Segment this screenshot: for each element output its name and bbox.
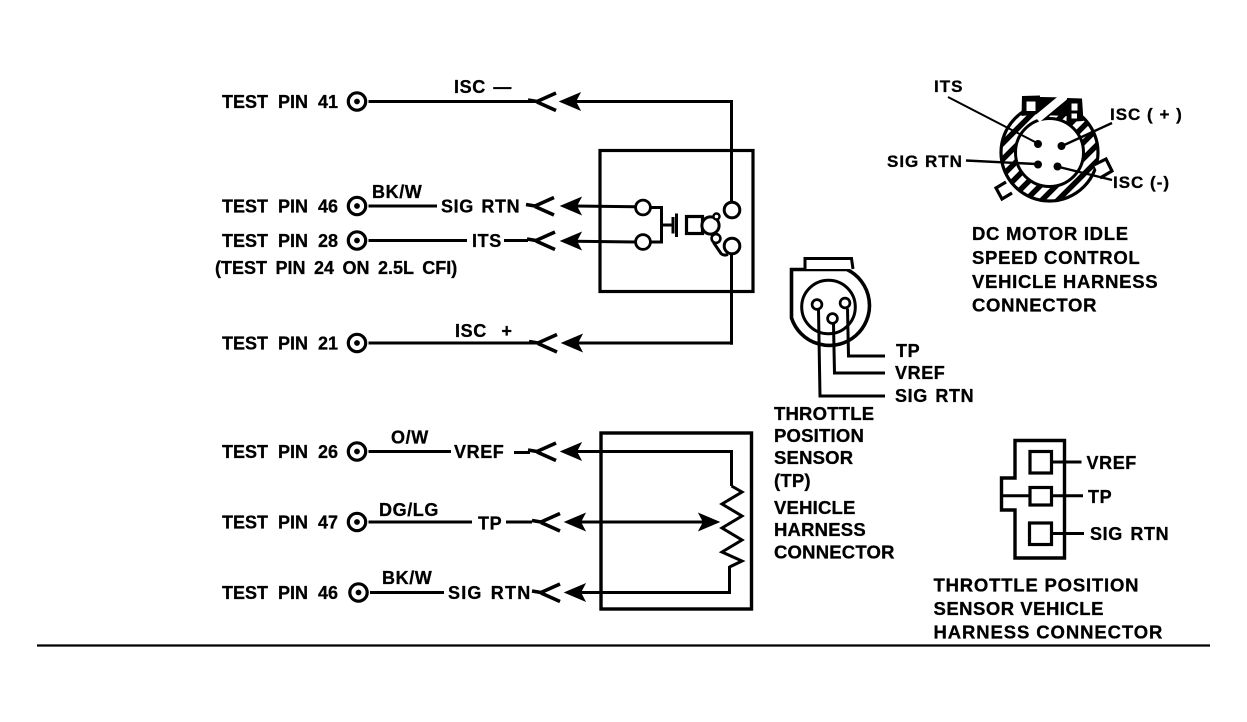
- svg-text:TEST PIN 46: TEST PIN 46: [222, 197, 338, 217]
- svg-text:BK/W: BK/W: [382, 568, 432, 588]
- svg-text:TEST PIN 47: TEST PIN 47: [222, 513, 338, 533]
- svg-text:ISC (-): ISC (-): [1113, 173, 1170, 192]
- connector top castellation: [1037, 95, 1068, 119]
- wire BK/W lower segment: [370, 591, 444, 594]
- chevron arrowhead ISC-: [528, 93, 556, 111]
- svg-text:(TP): (TP): [774, 470, 811, 491]
- svg-text:TEST PIN 41: TEST PIN 41: [222, 92, 338, 112]
- svg-text:ITS: ITS: [472, 231, 502, 251]
- svg-text:SIG RTN: SIG RTN: [448, 583, 531, 603]
- chevron arrowhead TP: [532, 514, 560, 532]
- motor shaft bump: [714, 214, 720, 220]
- DC motor body square: [687, 217, 703, 234]
- wire TP through-line: [1003, 494, 1083, 497]
- test pin 47 jack: [348, 513, 365, 530]
- svg-text:O/W: O/W: [391, 428, 429, 448]
- TP connector pin right: [840, 298, 850, 308]
- test pin 46 jack: [348, 197, 365, 214]
- leader line ISC-: [1059, 167, 1112, 180]
- svg-text:DC MOTOR IDLE: DC MOTOR IDLE: [972, 223, 1129, 244]
- pin VREF square: [1030, 452, 1052, 474]
- chevron arrowhead VREF: [528, 443, 556, 461]
- TP harness round connector outline: [792, 270, 870, 346]
- connector side lug right: [1094, 159, 1112, 178]
- wire ISC+ vertical rise to motor terminal: [730, 254, 733, 345]
- connector side lug left: [996, 182, 1012, 199]
- svg-text:TEST PIN 26: TEST PIN 26: [222, 442, 338, 462]
- svg-text:ISC ( + ): ISC ( + ): [1110, 105, 1183, 124]
- wire VREF right segment: [514, 451, 530, 454]
- wire ISC+ from pin 21: [369, 342, 539, 345]
- caption THROTTLE POSITION SENSOR (TP) VEHICLE HARNESS CONNECTOR: [774, 403, 895, 563]
- svg-text:TEST PIN 46: TEST PIN 46: [222, 583, 338, 603]
- TP sensor box: [601, 433, 752, 609]
- wire DG/LG segment: [369, 521, 473, 524]
- arrow VREF from TP sensor: [561, 443, 732, 460]
- svg-text:SIG RTN: SIG RTN: [441, 197, 520, 217]
- svg-text:THROTTLE POSITION: THROTTLE POSITION: [934, 575, 1140, 596]
- svg-text:VEHICLE: VEHICLE: [774, 497, 856, 518]
- svg-text:SIG RTN: SIG RTN: [887, 152, 963, 171]
- caption DC MOTOR IDLE SPEED CONTROL VEHICLE HARNESS CONNECTOR: [972, 223, 1158, 316]
- svg-text:CONNECTOR: CONNECTOR: [972, 295, 1097, 316]
- DC motor rotor circle: [702, 217, 719, 234]
- svg-text:VREF: VREF: [895, 363, 945, 383]
- chevron arrowhead ITS: [527, 232, 555, 250]
- wire BK/W segment: [369, 205, 438, 208]
- svg-text:TEST PIN 28: TEST PIN 28: [222, 231, 338, 251]
- svg-text:VREF: VREF: [1087, 453, 1137, 473]
- svg-text:SENSOR: SENSOR: [774, 447, 853, 468]
- test pin 26 jack: [348, 443, 365, 460]
- arrow ISC+ from motor: [562, 335, 732, 352]
- wire VREF vertical drop to resistor: [730, 450, 733, 486]
- chevron arrowhead SIG RTN lower: [532, 584, 560, 602]
- svg-text:THROTTLE: THROTTLE: [774, 403, 874, 424]
- svg-text:ISC —: ISC —: [454, 77, 512, 97]
- wire O/W segment: [369, 450, 452, 453]
- ITS switch plunger: [662, 214, 677, 238]
- svg-text:POSITION: POSITION: [774, 425, 864, 446]
- pin TP square: [1030, 488, 1052, 506]
- arrow ISC- from harness: [560, 93, 732, 110]
- svg-text:SENSOR VEHICLE: SENSOR VEHICLE: [934, 598, 1104, 619]
- wire SIG RTN pin lead right: [1052, 532, 1085, 535]
- arrow SIG RTN from ISC motor: [561, 198, 636, 215]
- wire VREF pin lead: [834, 324, 886, 373]
- potentiometer resistor element: [722, 486, 742, 567]
- test pin 41 jack: [348, 93, 365, 110]
- bottom rule: [37, 644, 1210, 646]
- arrow ITS from ISC motor: [561, 233, 636, 250]
- wire ISC- vertical drop to motor terminal: [730, 100, 733, 203]
- arrow TP wiper double-headed: [565, 514, 719, 531]
- svg-text:TP: TP: [1088, 487, 1112, 507]
- svg-text:ITS: ITS: [934, 77, 963, 96]
- wire ITS left segment: [369, 239, 468, 242]
- TP sensor harness connector body: [1002, 441, 1065, 559]
- svg-text:DG/LG: DG/LG: [379, 500, 439, 520]
- connector top tab left: [1022, 96, 1041, 117]
- wire ISC- from pin 41: [369, 100, 538, 103]
- connector top tab right: [1067, 98, 1084, 122]
- svg-text:TEST PIN 21: TEST PIN 21: [222, 334, 338, 354]
- svg-text:HARNESS: HARNESS: [774, 519, 866, 540]
- svg-text:BK/W: BK/W: [372, 182, 422, 202]
- wire ITS right segment: [504, 239, 528, 242]
- leader line ISC+: [1062, 123, 1112, 146]
- motor worm gear circle: [712, 234, 721, 243]
- svg-text:VEHICLE HARNESS: VEHICLE HARNESS: [972, 271, 1158, 292]
- motor terminal upper: [724, 202, 740, 218]
- svg-text:SPEED CONTROL: SPEED CONTROL: [972, 247, 1140, 268]
- DC motor ISC harness connector: [854, 78, 1244, 228]
- caption THROTTLE POSITION SENSOR VEHICLE HARNESS CONNECTOR: [934, 575, 1164, 643]
- TP connector top tab: [805, 259, 853, 270]
- chevron arrowhead ISC+: [529, 335, 557, 353]
- wire TP pin lead: [848, 309, 886, 357]
- svg-text:HARNESS CONNECTOR: HARNESS CONNECTOR: [934, 622, 1164, 643]
- ISC motor assembly box: [600, 151, 753, 292]
- TP connector pin middle: [828, 314, 838, 324]
- wire VREF pin lead right: [1052, 461, 1082, 464]
- wire SIG RTN vertical rise to resistor: [728, 566, 731, 594]
- test pin 46 lower jack: [350, 584, 367, 601]
- wire SIG RTN pin lead: [819, 310, 886, 396]
- svg-text:TP: TP: [896, 341, 920, 361]
- ITS switch terminal lower: [636, 235, 651, 250]
- test pin 28 jack: [348, 232, 365, 249]
- motor linkage wire: [714, 243, 729, 256]
- ITS switch terminal upper: [636, 200, 651, 215]
- leader line SIG RTN: [966, 161, 1036, 165]
- svg-text:ISC +: ISC +: [455, 321, 513, 341]
- pin ISC-: [1054, 163, 1062, 171]
- leader line ITS: [948, 97, 1037, 143]
- svg-text:VREF: VREF: [454, 442, 504, 462]
- wire TP right segment: [506, 521, 532, 524]
- TP connector pin left: [812, 300, 822, 310]
- pin ITS: [1034, 140, 1042, 148]
- chevron arrowhead SIG RTN: [526, 198, 554, 216]
- svg-text:(TEST PIN 24 ON 2.5L CFI): (TEST PIN 24 ON 2.5L CFI): [215, 258, 457, 278]
- pin SIG RTN: [1034, 161, 1042, 169]
- svg-text:CONNECTOR: CONNECTOR: [774, 542, 895, 563]
- svg-text:TP: TP: [478, 514, 502, 534]
- svg-text:SIG RTN: SIG RTN: [895, 386, 974, 406]
- motor terminal lower: [724, 238, 740, 254]
- arrow SIG RTN from TP sensor: [565, 584, 730, 601]
- pin SIG RTN square: [1030, 523, 1052, 545]
- ITS switch bracket: [651, 208, 662, 243]
- TP connector inner circle: [802, 280, 856, 334]
- test pin 21 jack: [348, 334, 365, 351]
- svg-text:SIG RTN: SIG RTN: [1090, 524, 1169, 544]
- pin ISC+: [1058, 142, 1066, 150]
